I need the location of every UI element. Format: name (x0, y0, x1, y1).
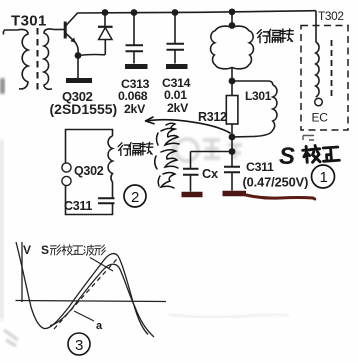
svg-text:C311: C311 (64, 199, 92, 213)
maroon underline (244, 195, 315, 200)
ground (C313) (125, 64, 148, 69)
wire: rail to deflection coil (231, 12, 233, 25)
node: rail junction at diode (102, 9, 109, 16)
T302 winding (316, 42, 319, 97)
graph H axis (16, 301, 167, 302)
label 行偏转 (top) (257, 29, 293, 43)
svg-text:S: S (41, 243, 49, 257)
wire: down to capacitor node (231, 137, 233, 151)
svg-text:2: 2 (131, 189, 139, 206)
capacitor C311 (main) (224, 152, 240, 191)
svg-text:(0.47/250V): (0.47/250V) (243, 175, 309, 190)
pointer (label to curve) (90, 258, 113, 272)
wire: rail into T302 (315, 11, 317, 42)
svg-text:2kV: 2kV (124, 102, 146, 116)
svg-text:Q302: Q302 (74, 164, 104, 178)
resistor R312 (226, 81, 238, 134)
wire: capacitor bus to Cx (191, 151, 233, 153)
T301 secondary winding (44, 29, 54, 89)
diode cathode bar (98, 26, 113, 28)
ground (Q302 emitter) (66, 78, 92, 83)
dashed reference line (54, 259, 117, 329)
svg-text:T301: T301 (11, 13, 47, 30)
svg-text:C311: C311 (246, 160, 274, 174)
damper diode (98, 13, 113, 55)
C311 plates (loop) (98, 198, 115, 203)
wire: emitter node to damper diode (78, 54, 105, 55)
C313 plates (126, 45, 144, 51)
capacitor C314 (166, 9, 188, 66)
node: capacitor bus junction (229, 148, 236, 155)
deflection coil (loop) (108, 136, 112, 182)
wire: C313 to ground (133, 52, 135, 64)
Q302 collector stroke (66, 13, 78, 26)
capacitor C313 (125, 9, 148, 66)
wire: rail to C313 (133, 13, 135, 45)
node: top of deflection coil (229, 22, 236, 29)
diode triangle (99, 28, 112, 40)
svg-text:3: 3 (75, 337, 83, 354)
T301 core (dashed) (37, 28, 39, 91)
svg-text:(2SD1555): (2SD1555) (50, 101, 118, 117)
graph V axis (21, 242, 23, 302)
capacitor Cx (183, 152, 199, 192)
svg-text:S: S (279, 143, 295, 170)
handwritten S校正 (279, 143, 339, 170)
edge smudges (0, 78, 288, 346)
Q302 base bar (64, 22, 67, 39)
C314 plates (167, 44, 185, 50)
ground (C314) (166, 64, 188, 69)
node: bottom junction R312/L301 (229, 134, 236, 141)
T302 terminal circle (315, 98, 323, 106)
svg-text:2kV: 2kV (167, 101, 189, 115)
S-curve inner (50, 264, 154, 337)
transformer T302 dashed box (301, 26, 348, 131)
pointer (a to dashed line) (74, 311, 94, 321)
svg-text:V: V (23, 243, 31, 257)
wire: base lead (54, 29, 65, 31)
label 行偏转 (loop) (118, 142, 153, 155)
node: junction coil / R312 / L301 (229, 78, 236, 85)
svg-text:0.01: 0.01 (164, 88, 187, 102)
horizontal deflection coil (main) (211, 26, 254, 69)
svg-text:Cx: Cx (202, 166, 219, 181)
node: emitter junction (75, 52, 82, 59)
node: rail junction at C314 (172, 9, 179, 16)
inductor L301 (235, 85, 277, 137)
label S形校正波形 (41, 243, 105, 257)
handwritten arrow to C313 (146, 117, 231, 133)
wire: diode anode down (104, 40, 106, 55)
node: rail junction at deflection branch (229, 9, 236, 16)
svg-text:1: 1 (320, 169, 328, 186)
wire: left primary lead with hook (3, 30, 17, 35)
transistor Q302 (65, 13, 78, 53)
svg-text:R312: R312 (198, 110, 227, 124)
loop wire rectangle (66, 130, 113, 215)
wire: node to L301 top (232, 81, 273, 85)
stray mark below T302 box (303, 136, 314, 141)
wire: rail to diode (104, 13, 106, 27)
svg-text:T302: T302 (318, 9, 344, 23)
S-curve outer (16, 242, 148, 335)
handwritten scribble 逆程 (cursive) (155, 123, 179, 188)
Q302 switch symbol (two circles) (62, 163, 71, 172)
node: rail junction at C313 (131, 9, 138, 16)
wire: emitter to ground (77, 56, 79, 79)
wire: coil bottom to node (231, 68, 233, 81)
circled 1 (312, 165, 335, 188)
T301 primary winding (18, 29, 29, 89)
wire: C314 to ground (174, 51, 176, 64)
svg-text:EC: EC (312, 111, 329, 125)
T302 core (dashed) (331, 40, 333, 96)
ground (C311, maroon) (223, 191, 247, 197)
svg-text:0.068: 0.068 (118, 89, 148, 103)
transformer T301 (3, 28, 64, 91)
wire: rail to C314 (174, 13, 176, 44)
circled 2 (124, 185, 146, 207)
Q302 emitter stroke with arrow (66, 34, 78, 54)
ground (Cx, maroon) (182, 192, 203, 198)
svg-text:a: a (96, 320, 103, 332)
svg-text:L301: L301 (245, 89, 272, 103)
wire: top supply rail (77, 11, 316, 13)
watermark smudge (faint gray printed-through text) (172, 136, 242, 164)
circled 3 (68, 333, 90, 355)
